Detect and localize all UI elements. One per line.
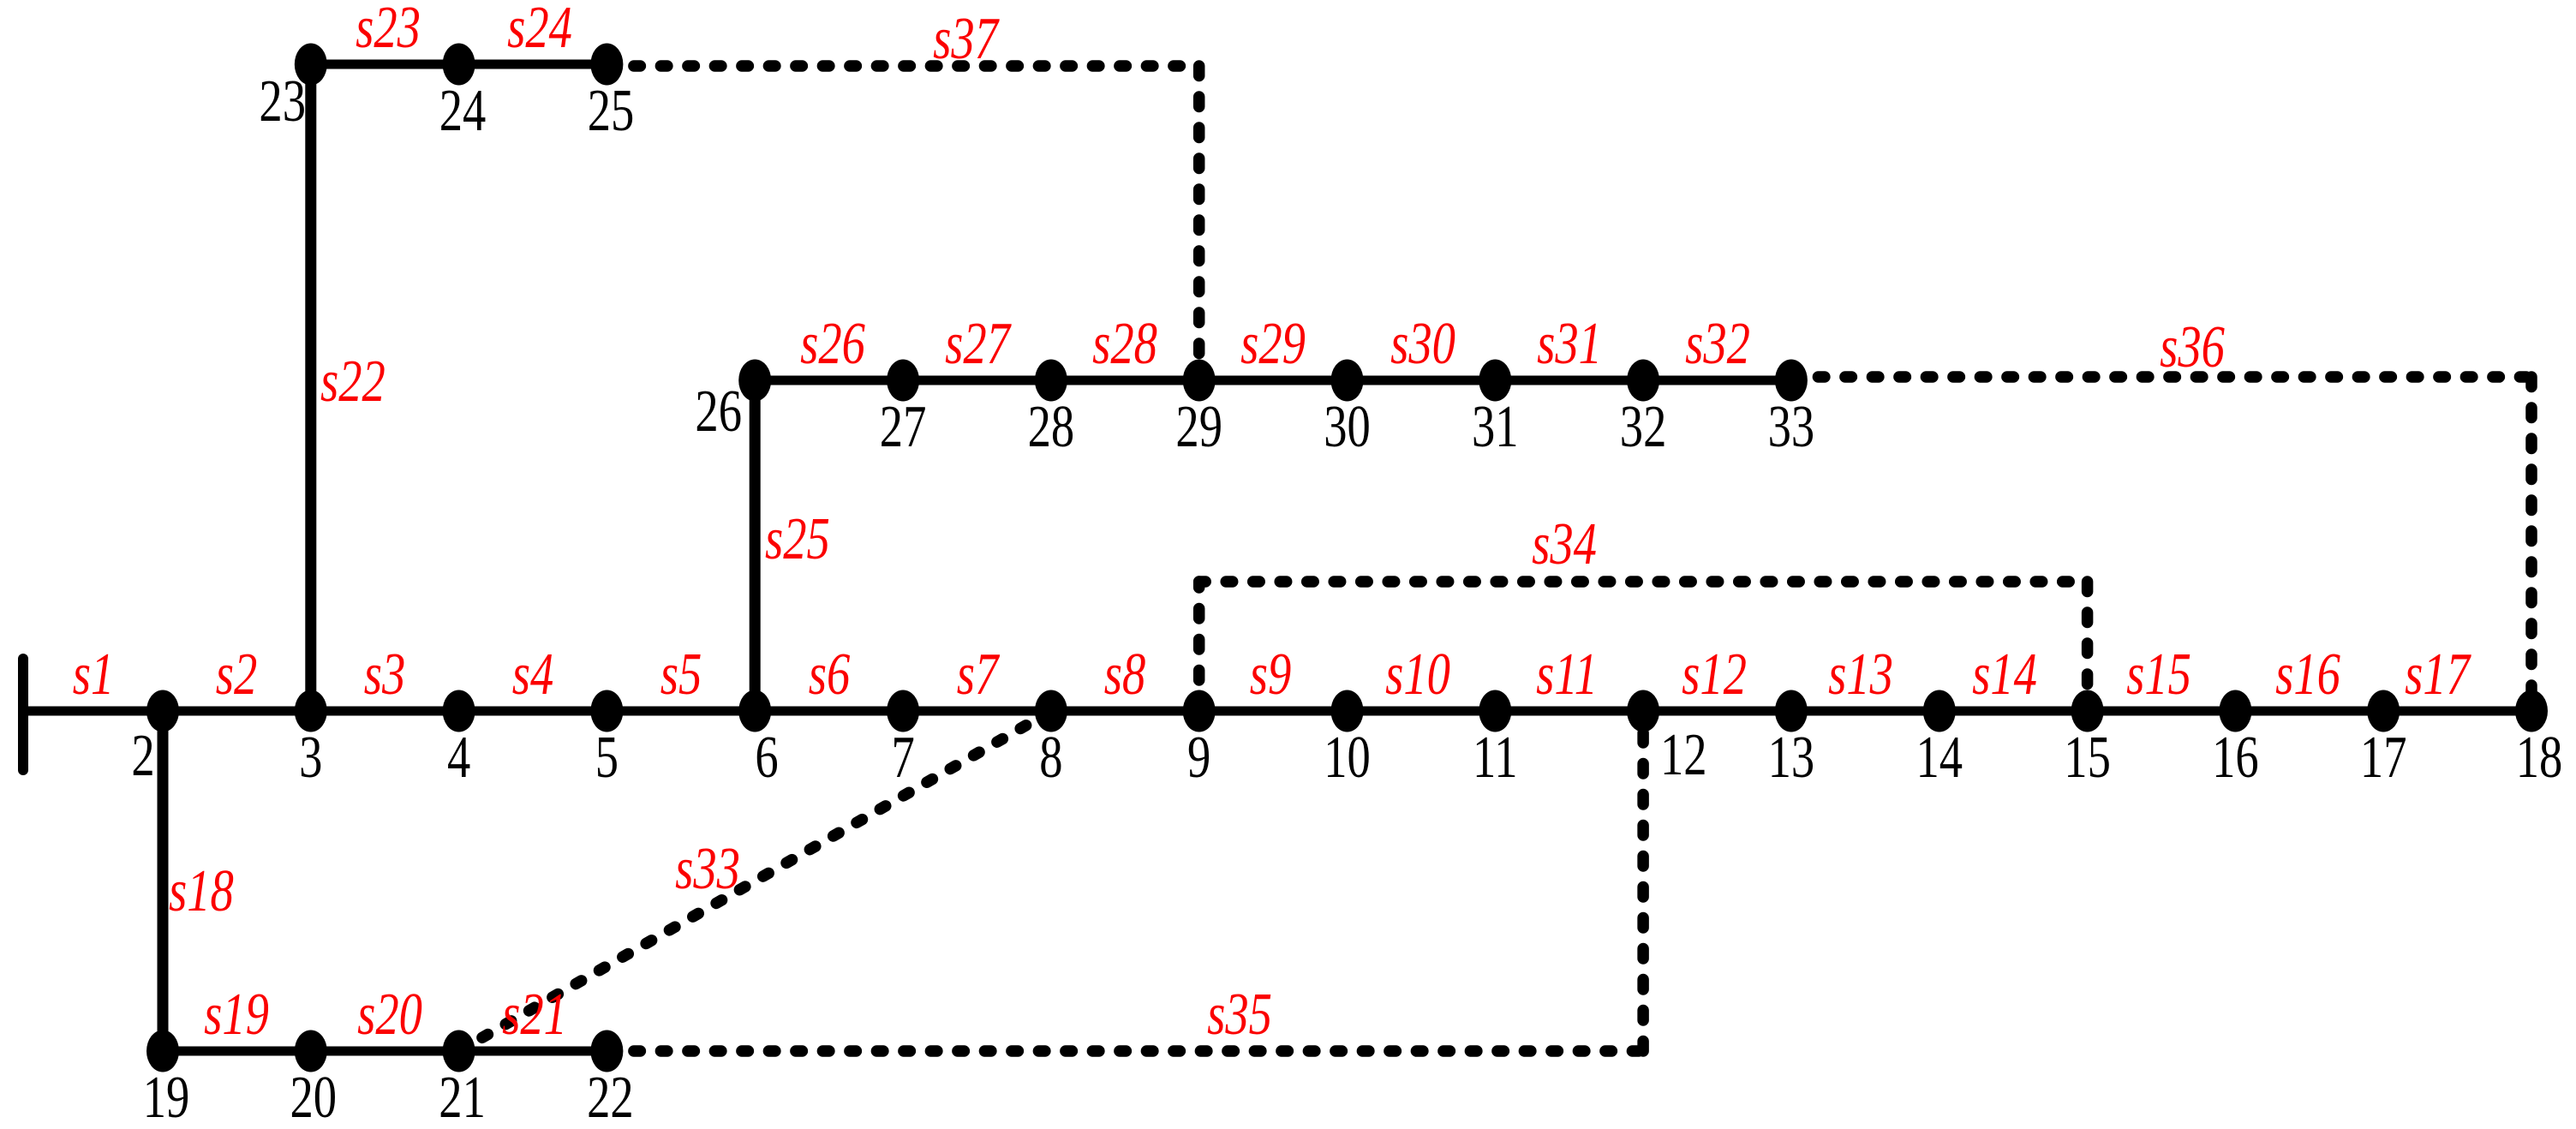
svg-text:s1: s1 bbox=[73, 641, 115, 708]
svg-text:s36: s36 bbox=[2160, 314, 2225, 380]
svg-text:s26: s26 bbox=[800, 310, 865, 377]
svg-text:s22: s22 bbox=[320, 348, 386, 415]
wire s13 (node 13 to node 14) bbox=[1791, 707, 1939, 716]
wire s32 (node 32 to node 33) bbox=[1643, 376, 1791, 385]
wire s11 (node 11 to node 12) bbox=[1495, 707, 1643, 716]
node 27 bbox=[887, 360, 919, 402]
svg-text:s17: s17 bbox=[2405, 641, 2471, 708]
node 31 bbox=[1479, 360, 1511, 402]
svg-text:10: 10 bbox=[1324, 724, 1371, 791]
svg-text:s8: s8 bbox=[1104, 641, 1146, 708]
tie switch s34 (node 9 to node 15, dashed) bbox=[1193, 582, 1205, 711]
svg-text:s25: s25 bbox=[765, 505, 830, 572]
svg-text:s19: s19 bbox=[204, 981, 269, 1048]
svg-text:s5: s5 bbox=[660, 641, 702, 708]
svg-text:s30: s30 bbox=[1390, 310, 1455, 377]
svg-text:17: 17 bbox=[2360, 724, 2407, 791]
svg-text:23: 23 bbox=[259, 68, 306, 134]
svg-text:s6: s6 bbox=[809, 641, 851, 708]
svg-text:26: 26 bbox=[695, 378, 742, 445]
wire s5 (node 5 to node 6) bbox=[607, 707, 755, 716]
svg-text:3: 3 bbox=[299, 724, 322, 791]
wire s3 (node 3 to node 4) bbox=[311, 707, 459, 716]
svg-text:27: 27 bbox=[880, 393, 927, 460]
wire s1 (source to node 2) bbox=[23, 707, 163, 716]
wire s12 (node 12 to node 13) bbox=[1643, 707, 1791, 716]
svg-text:s31: s31 bbox=[1537, 310, 1602, 377]
node 22 bbox=[590, 1030, 623, 1072]
svg-text:30: 30 bbox=[1324, 393, 1371, 460]
svg-text:s27: s27 bbox=[945, 310, 1012, 377]
svg-text:20: 20 bbox=[290, 1064, 338, 1129]
node 3 bbox=[295, 690, 327, 732]
node 7 bbox=[887, 690, 919, 732]
svg-text:5: 5 bbox=[595, 724, 619, 791]
wire s31 (node 31 to node 32) bbox=[1495, 376, 1643, 385]
wire s27 (node 27 to node 28) bbox=[903, 376, 1051, 385]
node 17 bbox=[2367, 690, 2400, 732]
wire s28 (node 28 to node 29) bbox=[1051, 376, 1199, 385]
svg-text:s37: s37 bbox=[933, 5, 1000, 72]
node 24 bbox=[443, 44, 475, 86]
wire s29 (node 29 to node 30) bbox=[1199, 376, 1348, 385]
svg-text:15: 15 bbox=[2064, 724, 2111, 791]
wire s18 (node 2 to node 19) bbox=[158, 711, 169, 1051]
svg-text:16: 16 bbox=[2212, 724, 2259, 791]
svg-text:s18: s18 bbox=[169, 857, 234, 924]
svg-text:s12: s12 bbox=[1682, 641, 1747, 708]
svg-text:13: 13 bbox=[1768, 724, 1815, 791]
node 15 bbox=[2071, 690, 2104, 732]
node 2 bbox=[146, 690, 179, 732]
svg-text:9: 9 bbox=[1187, 724, 1210, 791]
node 4 bbox=[443, 690, 475, 732]
wire s15 (node 15 to node 16) bbox=[2088, 707, 2236, 716]
svg-text:28: 28 bbox=[1028, 393, 1075, 460]
node 5 bbox=[590, 690, 623, 732]
wire s4 (node 4 to node 5) bbox=[459, 707, 607, 716]
svg-text:s3: s3 bbox=[364, 641, 406, 708]
svg-text:24: 24 bbox=[439, 77, 487, 144]
node 28 bbox=[1035, 360, 1067, 402]
node 9 bbox=[1183, 690, 1216, 732]
svg-text:s33: s33 bbox=[675, 835, 740, 902]
node 23 bbox=[295, 44, 327, 86]
node 29 bbox=[1183, 360, 1216, 402]
svg-text:11: 11 bbox=[1473, 724, 1518, 791]
svg-text:31: 31 bbox=[1472, 393, 1519, 460]
svg-text:s35: s35 bbox=[1207, 981, 1272, 1048]
svg-text:s23: s23 bbox=[356, 0, 421, 61]
node 26 bbox=[738, 360, 771, 402]
wire s23 (node 23 to node 24) bbox=[311, 60, 459, 69]
node 21 bbox=[443, 1030, 475, 1072]
node 12 bbox=[1627, 690, 1659, 732]
node 33 bbox=[1775, 360, 1808, 402]
tie switch s33 (node 21 to node 8, dashed) bbox=[459, 711, 1051, 1051]
svg-text:s29: s29 bbox=[1240, 310, 1306, 377]
svg-text:22: 22 bbox=[587, 1064, 634, 1129]
wire s22 (node 3 to node 23) bbox=[305, 64, 316, 711]
node 25 bbox=[590, 44, 623, 86]
svg-text:s24: s24 bbox=[507, 0, 572, 61]
wire s9 (node 9 to node 10) bbox=[1199, 707, 1348, 716]
svg-text:19: 19 bbox=[143, 1064, 190, 1129]
tie switch s37 (node 25 to node 29, dashed) bbox=[607, 60, 1198, 72]
wire s30 (node 30 to node 31) bbox=[1348, 376, 1496, 385]
svg-text:21: 21 bbox=[439, 1064, 486, 1129]
svg-text:18: 18 bbox=[2516, 724, 2563, 791]
tie switch s35 (node 22 to node 12, dashed) bbox=[607, 1045, 1643, 1057]
svg-text:14: 14 bbox=[1916, 724, 1963, 791]
wire s8 (node 8 to node 9) bbox=[1051, 707, 1199, 716]
svg-text:s14: s14 bbox=[1972, 641, 2037, 708]
svg-text:4: 4 bbox=[447, 724, 470, 791]
svg-text:s2: s2 bbox=[216, 641, 258, 708]
wire s7 (node 7 to node 8) bbox=[903, 707, 1051, 716]
wire s20 (node 20 to node 21) bbox=[311, 1047, 459, 1056]
node 16 bbox=[2219, 690, 2251, 732]
svg-text:2: 2 bbox=[131, 722, 154, 789]
node 32 bbox=[1627, 360, 1659, 402]
svg-text:33: 33 bbox=[1768, 393, 1815, 460]
wire s10 (node 10 to node 11) bbox=[1348, 707, 1496, 716]
svg-text:s4: s4 bbox=[512, 641, 554, 708]
wire s21 (node 21 to node 22) bbox=[459, 1047, 607, 1056]
wire s17 (node 17 to node 18) bbox=[2383, 707, 2531, 716]
wire s19 (node 19 to node 20) bbox=[163, 1047, 311, 1056]
node 20 bbox=[295, 1030, 327, 1072]
node 18 bbox=[2515, 690, 2548, 732]
svg-text:12: 12 bbox=[1660, 721, 1707, 788]
svg-text:s34: s34 bbox=[1532, 511, 1597, 577]
svg-text:s9: s9 bbox=[1250, 641, 1292, 708]
wire s26 (node 26 to node 27) bbox=[755, 376, 903, 385]
svg-text:s28: s28 bbox=[1092, 310, 1157, 377]
svg-text:s21: s21 bbox=[502, 981, 567, 1048]
svg-text:s16: s16 bbox=[2275, 641, 2340, 708]
node 14 bbox=[1923, 690, 1956, 732]
node 13 bbox=[1775, 690, 1808, 732]
node 10 bbox=[1331, 690, 1364, 732]
wire s14 (node 14 to node 15) bbox=[1939, 707, 2088, 716]
svg-text:25: 25 bbox=[588, 77, 635, 144]
wire s2 (node 2 to node 3) bbox=[163, 707, 311, 716]
source bus bar bbox=[18, 659, 28, 770]
wire s24 (node 24 to node 25) bbox=[459, 60, 607, 69]
svg-text:s15: s15 bbox=[2126, 641, 2191, 708]
wire s16 (node 16 to node 17) bbox=[2235, 707, 2383, 716]
node 8 bbox=[1035, 690, 1067, 732]
node 6 bbox=[738, 690, 771, 732]
wire s6 (node 6 to node 7) bbox=[755, 707, 903, 716]
svg-text:s13: s13 bbox=[1828, 641, 1893, 708]
svg-text:s20: s20 bbox=[357, 981, 422, 1048]
node 19 bbox=[146, 1030, 179, 1072]
svg-text:8: 8 bbox=[1039, 724, 1062, 791]
svg-text:s10: s10 bbox=[1385, 641, 1450, 708]
svg-text:s32: s32 bbox=[1685, 310, 1750, 377]
svg-text:s11: s11 bbox=[1536, 641, 1598, 708]
svg-text:32: 32 bbox=[1620, 393, 1667, 460]
svg-text:29: 29 bbox=[1175, 393, 1222, 460]
tie switch s36 (node 33 to node 18, dashed) bbox=[1791, 371, 2531, 383]
wire s25 (node 6 to node 26) bbox=[750, 380, 761, 711]
svg-text:7: 7 bbox=[891, 724, 914, 791]
node 11 bbox=[1479, 690, 1511, 732]
svg-text:s7: s7 bbox=[957, 641, 1001, 708]
svg-text:6: 6 bbox=[755, 724, 778, 791]
node 30 bbox=[1331, 360, 1364, 402]
